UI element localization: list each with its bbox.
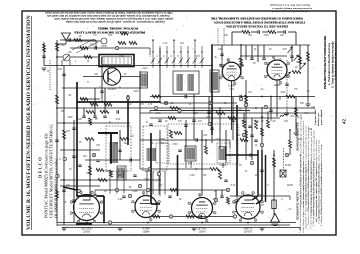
- wire vertical x268: [267, 113, 269, 120]
- capacitor C11: [192, 120, 195, 122]
- wire junction dot 17: [255, 107, 257, 109]
- svg-text:8.2K: 8.2K: [231, 185, 236, 187]
- wire junction dot 14: [219, 112, 221, 114]
- svg-text:3.3M: 3.3M: [117, 199, 122, 201]
- wire junction dot 26: [63, 122, 65, 124]
- svg-text:1K: 1K: [279, 59, 282, 61]
- IF transformer T1 box: [173, 71, 199, 94]
- resistor R61: [205, 146, 208, 154]
- svg-text:47K: 47K: [140, 104, 145, 106]
- IF can T3 winding: [147, 148, 155, 161]
- terminal BB: [169, 215, 172, 219]
- svg-text:47K: 47K: [66, 185, 71, 187]
- wire vertical x252: [251, 118, 253, 160]
- wire row y88: [62, 87, 140, 89]
- resistor R21: [261, 128, 264, 136]
- wire mid bus y216: [150, 216, 235, 218]
- capacitor C72: [254, 140, 257, 142]
- svg-text:12AE6: 12AE6: [228, 85, 236, 88]
- wire vertical x258b: [257, 45, 259, 62]
- wire junction dot 31: [240, 44, 242, 46]
- wire junction dot 21: [86, 222, 88, 224]
- tube V5 oscillator-modulator: [70, 191, 103, 223]
- wire dashed vertical x284: [283, 148, 285, 172]
- capacitor C24: [224, 180, 227, 182]
- wire row y99: [80, 98, 100, 100]
- svg-text:SPKR: SPKR: [287, 185, 294, 187]
- tuning gang dashed outline: [168, 124, 238, 164]
- svg-text:if speaker is disconnected. If: if speaker is disconnected. If set squea…: [47, 14, 170, 17]
- capacitor C27: [220, 54, 223, 56]
- wire vertical x90: [89, 140, 91, 196]
- resistor R10: [89, 166, 92, 175]
- wire row y196 right: [230, 195, 290, 197]
- capacitor C5: [117, 110, 119, 113]
- resistor R13: [170, 107, 179, 110]
- capacitor C21: [72, 200, 75, 202]
- terminal H: [264, 105, 267, 109]
- capacitor C19: [149, 124, 152, 126]
- resistor R41: [268, 31, 276, 34]
- heavy pc stub left: [63, 187, 77, 190]
- wire vertical x186: [185, 120, 187, 147]
- wire junction dot 12: [211, 65, 213, 67]
- wire row y180: [60, 179, 160, 181]
- tuning switch arrows: [286, 47, 306, 78]
- capacitor C9: [158, 120, 161, 122]
- pushbutton switch bank S1: [151, 39, 204, 68]
- capacitor C25: [250, 153, 252, 156]
- wire row y111: [150, 110, 250, 112]
- terminal D: [164, 101, 167, 105]
- svg-text:6.8K: 6.8K: [116, 119, 121, 121]
- svg-text:OUT: OUT: [260, 205, 265, 207]
- wire vertical x252b: [251, 45, 253, 58]
- capacitor C8: [130, 158, 132, 161]
- svg-text:12V6GT: 12V6GT: [244, 231, 253, 233]
- svg-text:.005: .005: [203, 135, 208, 137]
- wire junction dot 37: [257, 154, 259, 156]
- wire vertical x194: [193, 94, 195, 140]
- junction dot extra1: [110, 162, 112, 164]
- capacitor C33: [250, 135, 253, 137]
- wire upper right y32 e: [288, 31, 296, 33]
- IF transformer T1 secondary winding: [188, 74, 193, 91]
- wire junction dot 10: [193, 112, 195, 114]
- svg-text:AMP LF: AMP LF: [244, 228, 253, 231]
- resistor R5c: [90, 103, 98, 106]
- svg-text:DET: DET: [230, 89, 235, 91]
- resistor R16: [245, 95, 248, 104]
- resistor R30: [240, 139, 248, 142]
- wire junction dot 30: [211, 44, 213, 46]
- wire junction dot 39: [73, 149, 75, 151]
- wire top row b: [70, 47, 150, 49]
- wire junction dot 33: [159, 179, 161, 181]
- wire upper right y32 b: [251, 31, 258, 33]
- svg-text:42: 42: [342, 118, 347, 124]
- coil L3 box: [210, 70, 219, 92]
- capacitor C22: [122, 196, 125, 198]
- wire junction dot 36: [236, 139, 238, 141]
- wire vertical x140: [139, 71, 141, 160]
- terminal A: [63, 157, 66, 161]
- wire bottom bus 2: [57, 224, 290, 226]
- wire vertical x50 dotted: [49, 60, 51, 90]
- capacitor C32: [133, 175, 136, 177]
- resistor R12: [152, 95, 161, 98]
- svg-text:AVC: AVC: [238, 58, 243, 61]
- wire vertical x290: [289, 130, 291, 140]
- resistor R36: [118, 42, 126, 45]
- heavy pc vertical x151: [150, 133, 152, 204]
- resistor R5b: [80, 98, 88, 101]
- wire junction dot 13: [211, 107, 213, 109]
- capacitor C50: [82, 116, 85, 118]
- svg-text:10K: 10K: [218, 49, 223, 51]
- wire junction dot 6: [150, 139, 152, 141]
- svg-text:56K: 56K: [300, 103, 305, 105]
- coil L1 box: [140, 72, 148, 88]
- IF can T2 dashed box: [106, 126, 131, 171]
- page border frame: [22, 11, 336, 235]
- fuse box X symbol: [280, 170, 286, 177]
- resistor R64: [289, 140, 292, 148]
- wire junction dot 29: [295, 107, 297, 109]
- svg-text:456KC: 456KC: [144, 171, 151, 173]
- wire junction dot 25: [56, 107, 58, 109]
- svg-text:Speaker outlet, Ohm. W. is a s: Speaker outlet, Ohm. W. is a shorting ty…: [270, 4, 310, 7]
- svg-text:+B: +B: [307, 91, 310, 93]
- capacitor C3: [62, 74, 65, 76]
- terminal EE: [226, 188, 229, 192]
- capacitor C40: [258, 30, 260, 33]
- capacitor C18: [196, 138, 198, 141]
- wire vertical x233: [232, 97, 234, 141]
- wire dotted vertical x224: [223, 28, 225, 45]
- svg-text:speaker outlet. Ohm. W. is a s: speaker outlet. Ohm. W. is a shorting ty…: [54, 17, 173, 20]
- svg-text:4.7K: 4.7K: [304, 113, 309, 115]
- printed circuit heavy box: [99, 55, 134, 67]
- svg-text:if speaker is disconnected - s: if speaker is disconnected - set squeals…: [65, 20, 165, 23]
- wire dotted box tuning: [0, 0, 1, 1]
- wire junction dot 11: [201, 139, 203, 141]
- svg-text:disconnected. If set squeals,: disconnected. If set squeals, audio off.: [271, 10, 308, 13]
- coil L5 winding: [118, 168, 124, 179]
- terminal DD: [93, 194, 96, 198]
- tube V3 12AE6: [220, 58, 244, 85]
- dial cord diagonal: [72, 39, 98, 53]
- resistor R50: [104, 103, 112, 106]
- component value labels: [46, 35, 315, 211]
- terminal B: [56, 174, 59, 178]
- wire row y96: [150, 96, 315, 98]
- terminal U: [239, 97, 242, 101]
- heavy pc vertical x111: [110, 133, 112, 163]
- svg-text:TRIM: TRIM: [101, 46, 107, 48]
- wire vertical x246b: [245, 45, 247, 60]
- svg-text:1M: 1M: [68, 52, 71, 54]
- resistor R28: [56, 95, 59, 104]
- svg-text:2.2M: 2.2M: [189, 175, 194, 177]
- capacitor C26: [42, 56, 45, 58]
- heavy pc vertical x266: [265, 155, 267, 202]
- wire vertical x95 mid: [94, 88, 96, 116]
- wire vertical x290b: [289, 148, 291, 155]
- heavy pc vertical x104: [103, 196, 105, 223]
- tuner arrow: [64, 55, 70, 61]
- svg-text:470K: 470K: [201, 175, 207, 177]
- svg-text:DS-501: DS-501: [108, 89, 117, 91]
- wire vertical x57: [56, 40, 58, 223]
- resistor R40: [242, 31, 250, 34]
- wire vertical x296 up: [295, 32, 297, 45]
- resistor R32: [299, 56, 302, 64]
- resistor R66: [110, 170, 113, 177]
- wire tuner row: [57, 56, 98, 58]
- resistor R2: [80, 47, 88, 50]
- svg-text:14V: 14V: [311, 107, 316, 109]
- resistor R33: [245, 130, 248, 138]
- tube V8 label: [244, 228, 253, 234]
- capacitor C62: [200, 215, 202, 218]
- wire vertical x212c: [211, 135, 213, 143]
- oscillator coil winding: [219, 146, 226, 160]
- wire bottom bus 3: [62, 227, 300, 229]
- resistor R31: [240, 58, 243, 66]
- svg-text:2.2K: 2.2K: [163, 43, 168, 45]
- terminal FF: [250, 161, 253, 165]
- trimmer circle: [101, 38, 107, 44]
- resistor R9: [120, 138, 129, 141]
- resistor R65: [56, 190, 59, 198]
- svg-text:to prevent transistor damage i: to prevent transistor damage if speaker …: [272, 7, 312, 10]
- wire row y123: [57, 122, 130, 124]
- wire bottom bus 1: [57, 222, 296, 224]
- resistor R3: [84, 56, 92, 59]
- coil L3 winding: [211, 72, 217, 90]
- wire vertical x220: [219, 107, 221, 148]
- svg-text:.003: .003: [158, 185, 163, 187]
- svg-text:IF AMP: IF AMP: [142, 228, 150, 231]
- resistor R4b: [43, 44, 46, 52]
- svg-text:PP: PP: [294, 89, 298, 91]
- wire junction dot 3: [110, 132, 112, 134]
- svg-text:.002: .002: [108, 35, 113, 37]
- wire junction dot 18: [261, 116, 263, 118]
- svg-text:TONE: TONE: [159, 139, 166, 141]
- wire vertical x296: [295, 97, 297, 131]
- resistor R15: [228, 117, 236, 120]
- svg-text:1K: 1K: [189, 104, 192, 106]
- wire vertical x222: [221, 45, 223, 60]
- wire junction dot 32: [261, 96, 263, 98]
- wire junction dot 34: [150, 168, 152, 170]
- wire row y160: [85, 159, 140, 161]
- wire vertical x226: [225, 130, 227, 163]
- resistor R6: [100, 111, 109, 114]
- wire vertical x222 low: [221, 190, 223, 196]
- resistor R8: [85, 138, 94, 141]
- svg-text:M: M: [93, 155, 95, 157]
- resistor R26: [307, 52, 310, 61]
- svg-text:7-8kc. It is a fine example fo: 7-8kc. It is a fine example for the tran…: [45, 11, 173, 14]
- svg-text:PONTIAC MODEL 988823: PONTIAC MODEL 988823: [98, 27, 138, 31]
- wire vertical x206: [205, 140, 207, 146]
- wire tube V4 drop: [276, 80, 278, 117]
- terminal R: [285, 153, 288, 157]
- svg-text:proper adjusted: proper adjusted: [320, 109, 323, 126]
- svg-text:SEC: SEC: [161, 143, 166, 145]
- wire junction dot 24: [247, 222, 249, 224]
- wire junction dot 9: [177, 168, 179, 170]
- capacitor C61: [210, 128, 213, 130]
- svg-text:.001: .001: [180, 43, 185, 45]
- capacitor C14: [231, 120, 234, 122]
- wire dotted vertical x218: [217, 28, 219, 45]
- svg-text:12K: 12K: [280, 35, 285, 37]
- svg-text:3.3K: 3.3K: [148, 104, 153, 106]
- resistor R34: [89, 118, 92, 125]
- svg-text:OSC: OSC: [143, 68, 148, 70]
- wire upper right y32 a: [232, 31, 242, 33]
- wire vertical x209: [208, 97, 210, 125]
- wire junction dot 35: [236, 112, 238, 114]
- wire tube V3 drop: [231, 81, 233, 130]
- resistor R11b: [96, 169, 104, 172]
- tuner adjust circle: [63, 54, 70, 61]
- capacitor C13: [240, 95, 242, 98]
- capacitor C60: [178, 150, 181, 152]
- heavy pc vertical x177: [177, 155, 179, 196]
- capacitor C17: [260, 170, 263, 172]
- wire main top bus: [44, 65, 212, 67]
- coil L2 box: [185, 146, 196, 161]
- wire junction dot 2: [76, 107, 78, 109]
- capacitor C15: [269, 110, 272, 112]
- wire row y169: [140, 168, 210, 170]
- resistor R71: [227, 197, 230, 204]
- wire vertical x300: [299, 45, 301, 70]
- heavy pc elbow: [77, 190, 104, 196]
- terminal AA: [108, 221, 111, 225]
- capacitor C6: [100, 91, 103, 93]
- wire vertical x44 left: [43, 42, 45, 66]
- wire row y190: [95, 189, 230, 191]
- svg-text:DIAL: DIAL: [119, 55, 125, 58]
- svg-text:12AB5: 12AB5: [274, 84, 282, 87]
- wire row y140: [140, 139, 230, 141]
- capacitor C23: [168, 196, 171, 198]
- wire row y118: [150, 117, 280, 119]
- svg-text:ITEMS MAY STOP SEEKING EVERY T: ITEMS MAY STOP SEEKING EVERY TIME A RECE…: [213, 20, 305, 24]
- terminal K: [148, 167, 151, 171]
- resistor R20 output chain: [273, 158, 276, 167]
- svg-text:27K: 27K: [178, 121, 183, 123]
- capacitor C51: [93, 116, 96, 118]
- heavy pc vertical x77: [76, 82, 78, 190]
- heavy pc bus under tube V5: [76, 223, 92, 225]
- capacitor C52: [103, 116, 106, 118]
- wire row y186: [60, 185, 100, 187]
- svg-text:.001: .001: [248, 35, 253, 37]
- wire junction dot 8: [159, 101, 161, 103]
- capacitor C63: [72, 156, 75, 158]
- tube V4 12AB5: [264, 56, 289, 85]
- svg-text:SEC: SEC: [124, 143, 129, 145]
- junction dot extra3: [289, 129, 291, 131]
- resistor R37: [129, 42, 137, 45]
- svg-text:12AD6: 12AD6: [83, 230, 91, 233]
- svg-text:47K: 47K: [196, 56, 201, 58]
- antenna: [62, 33, 102, 44]
- wire junction dot 16: [245, 96, 247, 98]
- wire switch drop x160: [159, 48, 161, 102]
- wire vertical x241: [240, 45, 242, 75]
- coil L5 box: [117, 166, 126, 180]
- capacitor C30: [96, 160, 99, 162]
- wire output chain x274: [273, 150, 275, 200]
- fuse F1: [272, 200, 276, 209]
- svg-text:VC: VC: [288, 209, 292, 211]
- svg-text:100K: 100K: [280, 92, 286, 94]
- wire vertical x74: [73, 120, 75, 223]
- svg-text:VOLUME R-16, MOST-OFTEN-NEEDED: VOLUME R-16, MOST-OFTEN-NEEDED 1956 RADI…: [26, 14, 32, 230]
- svg-text:D E L C O: D E L C O: [38, 157, 43, 178]
- coil L1 winding: [141, 74, 146, 87]
- resistor R23: [170, 189, 178, 192]
- resistor R18: [286, 95, 295, 98]
- terminal HH: [214, 198, 217, 202]
- terminal C: [77, 189, 80, 193]
- resistor R22: [210, 168, 219, 171]
- wire junction dot 28: [89, 179, 91, 181]
- wire junction dot 22: [147, 222, 149, 224]
- terminal W: [115, 188, 119, 192]
- tube V6 label: [142, 228, 150, 234]
- svg-text:4. Align at 262 kc, 1615 kc, t: 4. Align at 262 kc, 1615 kc, then 1400 k…: [320, 162, 323, 214]
- wire vertical x246: [245, 80, 247, 155]
- wire vertical x244: [243, 113, 245, 120]
- resistor R13b: [168, 117, 176, 120]
- wire upper right y32 d: [277, 31, 284, 33]
- svg-text:ANT: ANT: [58, 68, 63, 71]
- wire antenna lead: [57, 43, 66, 45]
- capacitor C71: [220, 196, 223, 198]
- wire vertical x202: [201, 130, 203, 196]
- tube V7 detector AVC: [188, 193, 216, 222]
- wire vertical x308: [307, 45, 309, 100]
- wire vertical x271: [270, 97, 272, 119]
- wire row y150: [60, 149, 100, 151]
- tube V4 label: [274, 84, 282, 87]
- resistor R5: [86, 111, 95, 114]
- svg-text:PRI: PRI: [114, 143, 118, 145]
- left margin title underline rule: [31, 16, 33, 230]
- wire vertical x84 mid: [83, 108, 85, 116]
- svg-text:PRINTED CIRCUIT SHOWN IN HEAVY: PRINTED CIRCUIT SHOWN IN HEAVY LINES: [74, 31, 145, 35]
- scan speckle noise: [26, 13, 334, 233]
- wire junction dot 23: [201, 222, 203, 224]
- wire upper-right bus y45: [213, 44, 310, 46]
- capacitor C20: [55, 140, 58, 142]
- svg-text:.003: .003: [206, 117, 211, 119]
- terminal E: [178, 109, 181, 113]
- terminal M: [92, 153, 95, 157]
- capacitor C16: [285, 84, 288, 86]
- terminal F: [209, 101, 212, 105]
- heavy pc vertical x258: [252, 150, 258, 200]
